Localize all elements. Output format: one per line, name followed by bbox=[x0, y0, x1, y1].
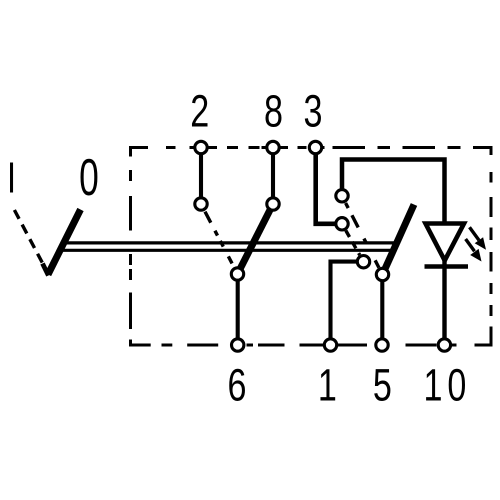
svg-text:0: 0 bbox=[79, 149, 99, 206]
svg-text:0: 0 bbox=[447, 360, 466, 411]
svg-text:1: 1 bbox=[424, 360, 443, 411]
svg-text:8: 8 bbox=[264, 86, 283, 137]
svg-text:5: 5 bbox=[373, 360, 392, 411]
svg-text:I: I bbox=[7, 154, 16, 203]
svg-text:6: 6 bbox=[228, 360, 247, 411]
svg-text:2: 2 bbox=[190, 86, 209, 137]
svg-text:3: 3 bbox=[304, 86, 323, 137]
svg-text:1: 1 bbox=[318, 360, 337, 411]
